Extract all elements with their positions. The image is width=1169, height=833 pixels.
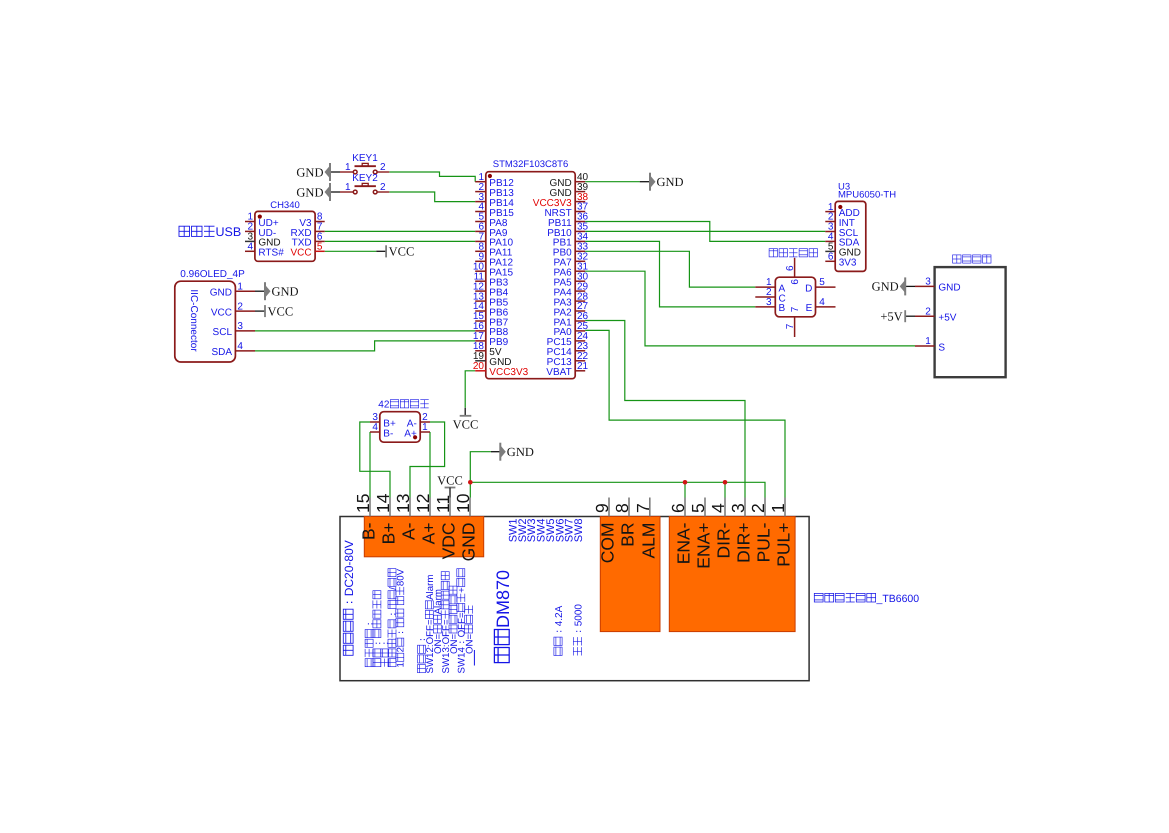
- wire U1 GND pin40 to flag: [585, 181, 650, 183]
- svg-text:4.2A: 4.2A: [554, 605, 565, 626]
- wire U1 PB10 to U3 SCL: [585, 230, 825, 232]
- svg-text:A-: A-: [399, 522, 419, 540]
- svg-text:KEY1: KEY1: [352, 153, 378, 164]
- svg-text:B+: B+: [379, 522, 399, 544]
- wire CH340 TXD to U1 PA10: [325, 240, 476, 242]
- svg-text:GND: GND: [872, 280, 899, 294]
- svg-text:1: 1: [422, 422, 428, 433]
- svg-text:4: 4: [819, 297, 825, 308]
- junction dot GND rail at pin10: [468, 480, 473, 485]
- wire rail drop to DM870 DIR-: [724, 482, 726, 497]
- svg-text:13: 13: [393, 494, 413, 513]
- svg-text:2: 2: [237, 301, 243, 312]
- wire rail drop to DM870 ENA-: [684, 482, 686, 497]
- wire U1 PB11 to U3 SDA: [585, 222, 825, 242]
- svg-text:DM870: DM870: [493, 570, 513, 628]
- connector 0.96OLED_4P: [175, 269, 255, 362]
- svg-text:1: 1: [237, 281, 243, 292]
- svg-text:4: 4: [708, 503, 728, 513]
- svg-text:7: 7: [633, 503, 653, 513]
- DM870 text 雷赛 DM870: [493, 570, 513, 663]
- DM870 terminal pin numbers: [353, 493, 788, 513]
- wire motor A+ to DM870 pin12: [429, 432, 431, 498]
- svg-text:GND: GND: [210, 288, 232, 299]
- ground GND flag at DM870 pin10 net: [500, 443, 534, 461]
- svg-text:+: +: [457, 587, 468, 593]
- svg-text:IIC-Connector: IIC-Connector: [188, 289, 199, 352]
- svg-text:1: 1: [345, 182, 351, 193]
- wire U1 VCC3V3 pin20 to VCC flag: [465, 371, 475, 408]
- svg-text:14: 14: [373, 493, 393, 513]
- svg-text:12: 12: [413, 494, 433, 513]
- svg-text:E: E: [806, 303, 813, 314]
- svg-text:3V3: 3V3: [839, 258, 857, 269]
- svg-text:5: 5: [688, 503, 708, 513]
- DM870 dip switch labels SW1-SW8: [508, 518, 586, 542]
- svg-text:VCC3V3: VCC3V3: [489, 367, 528, 378]
- svg-text:15: 15: [353, 494, 373, 513]
- svg-text:20: 20: [473, 361, 485, 372]
- svg-text:3: 3: [728, 503, 748, 513]
- svg-text:3: 3: [766, 297, 772, 308]
- svg-text:KEY2: KEY2: [352, 173, 378, 184]
- svg-text:GND: GND: [507, 445, 534, 459]
- power VCC flag below U1 pin20: [453, 408, 479, 432]
- wire laser +5V to flag: [905, 315, 915, 317]
- svg-text:B: B: [779, 303, 786, 314]
- wire KEY2 pin2 to U1 PB14: [389, 192, 475, 202]
- svg-text:2: 2: [380, 162, 386, 173]
- ground GND flag at laser GND: [872, 277, 906, 295]
- wire laser GND to flag: [905, 285, 915, 287]
- wire OLED GND to flag: [255, 290, 265, 292]
- svg-text:5: 5: [317, 242, 323, 253]
- svg-text:2: 2: [396, 647, 407, 652]
- svg-text:6: 6: [828, 252, 834, 263]
- svg-text:GND: GND: [657, 175, 684, 189]
- svg-text:PUL+: PUL+: [774, 523, 794, 567]
- wire GND rail to DM870 PUL-: [470, 482, 765, 497]
- svg-text:SDA: SDA: [211, 347, 232, 358]
- power VCC flag at OLED pin2: [265, 304, 293, 318]
- wire OLED SDA to U1 PB9: [255, 341, 475, 351]
- svg-text:/: /: [388, 587, 399, 590]
- svg-text:GND: GND: [296, 165, 323, 179]
- svg-text:10: 10: [453, 493, 473, 513]
- switch KEY2: [340, 173, 389, 194]
- ground GND flag at KEY1: [296, 163, 330, 181]
- svg-text:1: 1: [925, 336, 931, 347]
- svg-text:6: 6: [668, 503, 688, 513]
- module DM870 stepper driver body: [340, 517, 809, 681]
- svg-text:2: 2: [380, 182, 386, 193]
- svg-text:1: 1: [396, 662, 407, 667]
- svg-text:SW8: SW8: [573, 518, 585, 542]
- junction dot GND rail at DIR-: [723, 480, 728, 485]
- svg-text:VCC: VCC: [453, 417, 479, 431]
- ground GND flag at OLED pin1: [265, 282, 299, 300]
- wire motor B- to DM870 pin15: [369, 432, 371, 498]
- power VCC flag at CH340 pin5: [386, 245, 414, 259]
- power +5V flag at laser: [880, 310, 905, 324]
- svg-text:2: 2: [748, 503, 768, 513]
- wire U1 PA1 to DM870 DIR+: [585, 321, 745, 498]
- wire U1 PA0 to DM870 PUL+: [585, 330, 785, 497]
- power VCC flag at DM870 VDC pin11: [437, 473, 463, 497]
- svg-text:21: 21: [577, 361, 589, 372]
- ground GND flag at KEY2: [296, 183, 330, 201]
- DM870 terminal labels: [359, 522, 794, 568]
- svg-text:3: 3: [925, 277, 931, 288]
- svg-text:2: 2: [925, 306, 931, 317]
- IC U3 MPU6050-TH: [825, 182, 896, 272]
- DM870 text alarm notes: [365, 568, 407, 667]
- svg-text:1: 1: [768, 503, 788, 513]
- svg-text:ALM: ALM: [638, 523, 658, 559]
- svg-text:GND: GND: [938, 283, 960, 294]
- switch KEY1: [340, 153, 389, 174]
- svg-text:B-: B-: [359, 522, 379, 540]
- junction dot GND rail at ENA-: [683, 480, 688, 485]
- wire OLED SCL to U1 PB8: [255, 330, 475, 332]
- svg-text:A+: A+: [419, 522, 439, 544]
- svg-text:VCC: VCC: [290, 248, 311, 259]
- svg-text:VCC: VCC: [268, 304, 294, 318]
- svg-text:ENA+: ENA+: [694, 522, 714, 568]
- svg-text:4: 4: [247, 242, 253, 253]
- svg-text:9: 9: [592, 503, 612, 513]
- wire KEY1 pin2 to U1 PB12: [389, 172, 475, 182]
- svg-text:STM32F103C8T6: STM32F103C8T6: [493, 159, 569, 170]
- wire U1 PB1 to encoder B: [585, 241, 755, 307]
- svg-text:4: 4: [372, 422, 378, 433]
- svg-text:_TB6600: _TB6600: [876, 593, 920, 605]
- svg-text:5000: 5000: [573, 604, 584, 627]
- svg-text:0.96OLED_4P: 0.96OLED_4P: [180, 269, 245, 280]
- svg-text:D: D: [805, 283, 812, 294]
- svg-text:CH340: CH340: [270, 200, 300, 211]
- ground GND flag at U1 pin40: [650, 173, 684, 191]
- DM870 text 供电电压DC20-80V: [342, 540, 356, 655]
- svg-text:VCC: VCC: [211, 307, 232, 318]
- svg-text:VCC: VCC: [389, 245, 415, 259]
- svg-text:S: S: [938, 342, 945, 353]
- rotary encoder 旋转编码器: [755, 249, 835, 337]
- svg-text:Alarm: Alarm: [433, 589, 444, 614]
- svg-text:7: 7: [790, 306, 801, 312]
- wire OLED VCC to flag: [255, 310, 265, 312]
- svg-text:1: 1: [345, 162, 351, 173]
- svg-text:42: 42: [378, 400, 390, 411]
- wire CH340 RXD to U1 PA9: [325, 230, 476, 232]
- svg-text:4: 4: [237, 341, 243, 352]
- svg-text:RTS#: RTS#: [258, 248, 284, 259]
- svg-text:8: 8: [612, 503, 632, 513]
- svg-text:VDC: VDC: [439, 522, 459, 559]
- wire CH340 VCC to flag: [325, 250, 386, 252]
- svg-text:11: 11: [433, 495, 453, 513]
- label 此处连USB: [179, 225, 241, 239]
- svg-text:VCC: VCC: [437, 473, 463, 487]
- DM870 text 电流4.2A: [554, 605, 565, 655]
- svg-text:USB: USB: [216, 225, 242, 239]
- svg-text:ON=: ON=: [464, 633, 475, 654]
- svg-text:B-: B-: [383, 428, 393, 439]
- stepper motor 42步进电机: [370, 400, 430, 443]
- DM870 text 细分5000: [573, 604, 584, 656]
- laser module 激光模块: [915, 255, 1006, 377]
- label 步进电机驱动_TB6600: [814, 593, 919, 605]
- svg-text:ENA-: ENA-: [674, 522, 694, 564]
- IC CH340 USB-serial: [245, 200, 325, 261]
- svg-text:BR: BR: [618, 522, 638, 546]
- svg-text:7: 7: [785, 323, 796, 329]
- wire U1 PA6 to laser S: [585, 271, 915, 346]
- svg-text:+5V: +5V: [938, 313, 956, 324]
- svg-text:3: 3: [237, 321, 243, 332]
- wire motor A- to DM870 pin13: [410, 422, 445, 498]
- wire GND flag to DM870 GND pin10: [470, 452, 500, 498]
- svg-text:MPU6050-TH: MPU6050-TH: [838, 190, 896, 201]
- svg-text:DIR+: DIR+: [734, 523, 754, 563]
- svg-text:PUL-: PUL-: [754, 522, 774, 562]
- svg-text:DC20-80V: DC20-80V: [342, 540, 356, 596]
- DM870 text function codes: [418, 569, 476, 674]
- svg-text:6: 6: [785, 265, 796, 271]
- IC U1 STM32F103C8T6: [473, 159, 589, 379]
- svg-text:COM: COM: [598, 522, 618, 563]
- svg-text:GND: GND: [296, 185, 323, 199]
- svg-text:SCL: SCL: [213, 327, 233, 338]
- svg-text:+5V: +5V: [880, 310, 902, 324]
- svg-text:6: 6: [790, 279, 801, 285]
- wire motor B+ to DM870 pin14: [360, 422, 390, 498]
- svg-text:GND: GND: [459, 523, 479, 562]
- svg-text:VBAT: VBAT: [546, 367, 571, 378]
- svg-text:DIR-: DIR-: [714, 522, 734, 558]
- DM870 terminal leads: [370, 498, 785, 517]
- wire U1 PB0 to encoder A: [585, 251, 755, 287]
- svg-text:A+: A+: [404, 428, 417, 439]
- svg-text:5: 5: [819, 277, 825, 288]
- wire GND flag to KEY1 pin1: [330, 171, 340, 173]
- svg-text:GND: GND: [272, 285, 299, 299]
- svg-text:80V: 80V: [396, 568, 407, 586]
- wire GND flag to KEY2 pin1: [330, 191, 340, 193]
